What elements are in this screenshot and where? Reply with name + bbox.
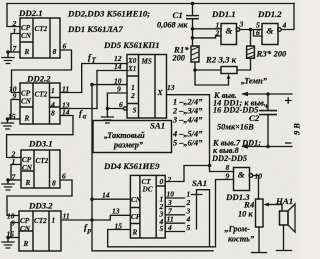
- svg-text:CP: CP: [22, 156, 32, 164]
- svg-text:CN: CN: [20, 225, 31, 233]
- wire DD4 out1 to SA1: [165, 197, 184, 199]
- svg-text:DD2.2: DD2.2: [26, 74, 51, 84]
- svg-text:X0: X0: [127, 57, 137, 65]
- node C1 top junction: [191, 2, 195, 6]
- svg-text:10 к: 10 к: [238, 210, 253, 219]
- node C1 bottom / DD1.1 pin1: [191, 27, 195, 31]
- wire fA : DD2.2 pin13 to DD5 X1: [60, 71, 127, 109]
- svg-text:&: &: [226, 26, 233, 36]
- svg-text:R: R: [24, 115, 30, 123]
- wire DD3.1 CN down: [11, 165, 21, 181]
- svg-text:3 –„4/4”: 3 –„4/4”: [172, 116, 203, 125]
- resistor R1: [172, 45, 200, 63]
- svg-text:НА1: НА1: [275, 196, 293, 206]
- wire fP : DD3.2 pin11 output: [61, 219, 92, 221]
- svg-text:CP: CP: [20, 217, 30, 225]
- svg-text:11: 11: [63, 212, 70, 221]
- wire DD2.1 R to ground: [8, 51, 20, 53]
- node DD1.1 output junction: [249, 28, 253, 32]
- switch SA1 wiper and pole: [192, 190, 210, 247]
- wire DD4 out2 to SA1: [165, 206, 184, 208]
- switch function label box: [93, 121, 172, 153]
- svg-text:&: &: [267, 26, 274, 36]
- svg-text:CT2: CT2: [36, 157, 49, 165]
- potentiometer R2: [195, 55, 237, 86]
- wire fP down to outer bottom line: [92, 220, 213, 251]
- svg-text:9: 9: [226, 172, 230, 181]
- svg-text:R: R: [25, 179, 31, 187]
- wire DD2.2 R to ground: [8, 118, 21, 120]
- power rail plus: [241, 92, 292, 104]
- svg-text:CN: CN: [131, 196, 142, 204]
- wire DD3.2 CN down: [11, 223, 19, 238]
- svg-text:4: 4: [167, 223, 172, 232]
- svg-text:CN: CN: [21, 32, 32, 40]
- svg-text:4 –„5/4”: 4 –„5/4”: [172, 130, 203, 139]
- svg-text:DD3.2: DD3.2: [28, 201, 53, 211]
- node DD4 CN junction: [90, 197, 94, 201]
- svg-text:6: 6: [119, 100, 123, 109]
- node fP junction: [90, 218, 94, 222]
- wire DD3.1 out pin6 to DD3.2 CP: [7, 180, 72, 216]
- wire fT : DD2.2 pin11 to DD5 X0: [60, 64, 127, 93]
- svg-text:3: 3: [239, 20, 244, 29]
- svg-text:MS: MS: [141, 58, 152, 66]
- wire DD4 R loop to SA1 common: [108, 180, 234, 247]
- svg-text:DD4 К561ИЕ9: DD4 К561ИЕ9: [103, 161, 160, 171]
- svg-text:S: S: [133, 107, 137, 115]
- ground under DD3.1: [2, 180, 14, 190]
- wire to DD1.1 pin 1: [193, 28, 222, 30]
- wire DD5 X output to DD1.3 pin8: [167, 95, 210, 166]
- svg-text:CN: CN: [22, 164, 33, 172]
- svg-text:„Гром-: „Гром-: [225, 225, 251, 234]
- svg-text:&: &: [238, 170, 245, 180]
- wire DD5 input 2 to ground: [107, 93, 127, 117]
- wire R2 right to R3 bottom: [237, 58, 251, 70]
- svg-text:6: 6: [62, 172, 66, 181]
- svg-text:CT2: CT2: [35, 25, 48, 33]
- wire R3 top to DD1.1 output node: [250, 30, 252, 47]
- svg-text:0: 0: [160, 177, 164, 186]
- svg-text:DD5 К561КП1: DD5 К561КП1: [103, 40, 160, 50]
- svg-text:R4: R4: [243, 200, 255, 210]
- resistor R3: [247, 46, 287, 59]
- svg-text:„Тактовый: „Тактовый: [104, 131, 145, 140]
- speaker HA1: [275, 196, 295, 251]
- node DD3.2 ground junction: [6, 236, 10, 240]
- svg-text:2 –„3/4”: 2 –„3/4”: [172, 107, 203, 116]
- svg-text:DD2,DD3 К561ИЕ10;: DD2,DD3 К561ИЕ10;: [67, 9, 150, 19]
- svg-text:1: 1: [51, 86, 55, 95]
- svg-text:1 –„2/4”: 1 –„2/4”: [173, 98, 203, 107]
- counter DD2.2: [20, 74, 60, 125]
- wire DD2.1 out pin6 to DD2.2 CP: [12, 50, 72, 93]
- svg-text:X1: X1: [127, 65, 136, 73]
- capacitor C1: [157, 4, 199, 30]
- svg-text:5: 5: [160, 224, 164, 233]
- wire DD4 CP from fP: [92, 215, 130, 220]
- wire DD4 CN from fP vertical: [92, 198, 130, 200]
- ground under DD5 S: [101, 117, 113, 123]
- svg-text:2: 2: [215, 29, 220, 38]
- power rail minus: [241, 143, 292, 149]
- capacitor C2: [217, 94, 277, 147]
- node DD5 X / DD4 out0 junction: [208, 164, 212, 168]
- node R1/R2 junction: [193, 68, 197, 72]
- node DD2.1 ground junction: [6, 50, 10, 54]
- gate DD1.1: [211, 9, 240, 45]
- svg-text:5 –„6/4”: 5 –„6/4”: [173, 139, 203, 148]
- svg-text:9: 9: [117, 85, 121, 94]
- wire R4 bottom to common: [252, 227, 267, 253]
- node DD2.2 ground junction: [6, 117, 10, 121]
- counter DD3.2: [19, 201, 61, 252]
- svg-text:X: X: [157, 88, 164, 97]
- svg-text:DD2.1: DD2.1: [18, 8, 43, 18]
- svg-text:SA1: SA1: [192, 178, 207, 188]
- wire R1 bottom to R2 left: [195, 62, 221, 70]
- wire DD4 out5 to SA1: [165, 231, 184, 233]
- svg-text:R2 3,3 к: R2 3,3 к: [205, 55, 237, 65]
- svg-text:DD1.2: DD1.2: [257, 9, 282, 19]
- svg-text:6: 6: [256, 28, 260, 37]
- wire DD2.2 CN to R row: [11, 100, 20, 120]
- svg-text:14: 14: [102, 191, 110, 200]
- wire fP vertical up to DD5 input 1: [92, 85, 127, 220]
- gate DD1.3: [225, 168, 253, 203]
- svg-text:CP: CP: [131, 213, 141, 221]
- wire left vertical to DD2.1 CP: [7, 4, 20, 27]
- svg-text:C2: C2: [249, 113, 260, 123]
- svg-text:0,068 мк: 0,068 мк: [157, 21, 188, 30]
- svg-text:кость”: кость”: [228, 235, 255, 244]
- ground under DD3.2: [2, 238, 14, 249]
- svg-text:R3*200: R3*200: [256, 49, 287, 59]
- svg-text:R: R: [24, 48, 30, 56]
- wire to DD1.1 pin 2: [193, 29, 222, 46]
- svg-text:200: 200: [172, 54, 185, 63]
- node DD5 S ground junction: [106, 107, 110, 111]
- wire DD5 S to ground: [107, 108, 123, 110]
- svg-text:DD1 К561ЛА7: DD1 К561ЛА7: [67, 24, 123, 34]
- svg-text:CN: CN: [21, 98, 32, 106]
- gate DD1.2: [257, 9, 282, 45]
- ground under DD2.1: [2, 52, 14, 64]
- svg-text:1: 1: [52, 216, 56, 225]
- svg-text:DD3.1: DD3.1: [28, 139, 53, 149]
- svg-text:CT2: CT2: [34, 217, 47, 225]
- wire top rail: [7, 3, 294, 5]
- counter DD2.1: [18, 8, 60, 58]
- svg-text:CP: CP: [21, 90, 31, 98]
- svg-text:R: R: [23, 240, 29, 248]
- wire DD1.3 out to R4: [253, 176, 259, 200]
- node DD3.1 ground junction: [6, 178, 10, 182]
- ground under DD2.2: [2, 119, 14, 129]
- svg-text:50мк×16В: 50мк×16В: [217, 123, 254, 132]
- svg-text:2: 2: [167, 175, 172, 184]
- svg-text:14: 14: [114, 62, 122, 71]
- wire DD2.1 CN to ground node: [11, 34, 20, 53]
- node DD5 pin10: [90, 83, 94, 87]
- svg-text:R: R: [132, 229, 138, 237]
- potentiometer R4: [238, 199, 282, 227]
- svg-text:DC: DC: [142, 186, 153, 194]
- svg-text:C1: C1: [173, 10, 183, 20]
- svg-text:размер”: размер”: [113, 141, 144, 150]
- wire DD1.1 out to DD1.2 inputs: [240, 30, 262, 37]
- multiplexer DD5: [124, 55, 167, 119]
- wire DD3.1 R to ground: [8, 179, 21, 181]
- svg-text:9 В: 9 В: [293, 123, 301, 135]
- svg-text:CT2: CT2: [35, 91, 48, 99]
- svg-text:SA1: SA1: [150, 121, 165, 131]
- svg-text:2: 2: [130, 91, 135, 100]
- svg-text:CP: CP: [21, 24, 31, 32]
- wire DD4 out3 to SA1: [165, 214, 184, 216]
- wire DD4 out4 to SA1: [165, 222, 184, 224]
- svg-text:13: 13: [112, 207, 120, 216]
- svg-text:„Темп”: „Темп”: [241, 77, 268, 86]
- svg-text:DD2-DD5: DD2-DD5: [211, 154, 247, 163]
- svg-text:6: 6: [63, 42, 67, 51]
- wire DD4 out0 to DD1.3 pin8: [165, 166, 233, 182]
- wire right edge down to DD1.2 output: [282, 4, 295, 30]
- svg-text:DD1.1: DD1.1: [211, 9, 236, 19]
- svg-text:4: 4: [282, 21, 287, 30]
- svg-text:8: 8: [52, 179, 56, 188]
- svg-text:5: 5: [187, 223, 191, 232]
- wire DD3.2 R to ground: [8, 237, 19, 239]
- wire DD2.2 pin14 to DD3.1 CP: [7, 116, 73, 158]
- svg-text:13: 13: [167, 83, 175, 92]
- node DD1.1 pin2 branch: [191, 36, 195, 40]
- svg-text:8: 8: [53, 47, 57, 56]
- counter DD4: [130, 175, 165, 238]
- counter DD3.1: [21, 139, 60, 189]
- svg-text:8: 8: [51, 109, 55, 118]
